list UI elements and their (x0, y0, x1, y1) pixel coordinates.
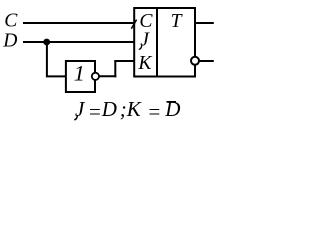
wire output Q-bar bottom (199, 60, 214, 62)
svg-text:K: K (137, 53, 152, 74)
svg-text:=: = (88, 100, 102, 124)
inverter U1 output inversion bubble (92, 73, 99, 80)
svg-text:D: D (101, 97, 117, 121)
wire horizontal to inverter input (46, 75, 67, 77)
flip-flop section divider (156, 7, 158, 77)
wire vertical drop from junction (46, 42, 48, 76)
caption overline on D (167, 101, 177, 103)
wire riser K net (114, 61, 116, 77)
svg-text:J: J (140, 30, 150, 51)
flip-flop U2 box (134, 8, 195, 77)
svg-text:C: C (4, 11, 18, 32)
svg-text:D: D (164, 97, 180, 121)
dynamic clock input slash at pin C (131, 20, 136, 29)
output Q inverted bubble (191, 57, 199, 65)
wire D input (J net) (23, 41, 136, 43)
svg-text:K: K (126, 97, 142, 121)
junction dot on D wire (43, 39, 50, 46)
svg-text:1: 1 (74, 61, 85, 86)
wire inverter output (K net) (99, 75, 116, 77)
wire output Q top (196, 22, 214, 24)
svg-text:D: D (2, 31, 17, 52)
wire C input (23, 22, 136, 24)
pin label J (139, 45, 142, 49)
svg-text:=: = (147, 100, 161, 124)
svg-text:;: ; (120, 97, 127, 121)
caption J = D (74, 116, 77, 120)
inverter U1 box (66, 61, 95, 92)
wire K net upper run to flip-flop (114, 60, 135, 62)
